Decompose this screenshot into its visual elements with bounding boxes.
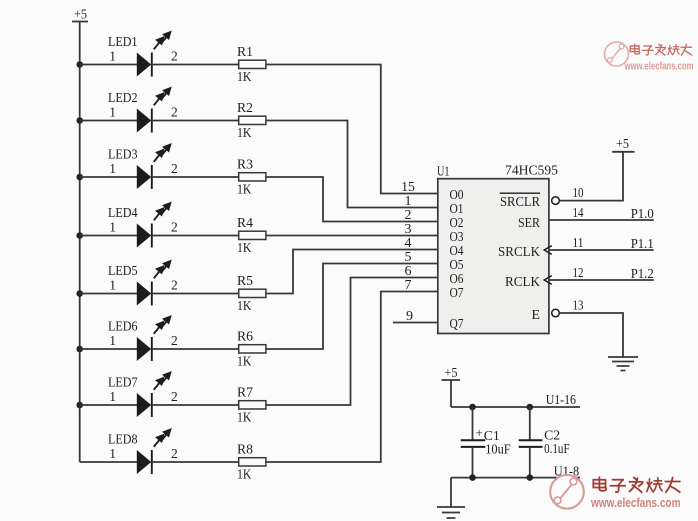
wire LED8 cathode to R8 bbox=[152, 461, 239, 463]
svg-text:R6: R6 bbox=[237, 330, 253, 345]
svg-text:14: 14 bbox=[573, 206, 584, 221]
LED1 bbox=[108, 32, 178, 76]
resistor R6 1K bbox=[237, 330, 266, 370]
wire rail to LED5 anode bbox=[80, 293, 137, 295]
watermark logo top-right bbox=[605, 42, 694, 73]
wire R8 to pin 7 bbox=[266, 292, 438, 463]
svg-text:7: 7 bbox=[405, 278, 412, 293]
wire R1 to pin 15 bbox=[266, 65, 438, 194]
wire LED2 cathode to R2 bbox=[152, 120, 239, 122]
LED5 bbox=[108, 261, 178, 305]
svg-text:R4: R4 bbox=[237, 216, 253, 231]
wire pin13 to ground bbox=[559, 313, 623, 357]
svg-text:RCLK: RCLK bbox=[505, 275, 540, 290]
svg-text:1: 1 bbox=[109, 220, 116, 235]
svg-text:R5: R5 bbox=[237, 274, 253, 289]
svg-text:LED8: LED8 bbox=[108, 431, 138, 446]
svg-text:P1.1: P1.1 bbox=[631, 237, 654, 252]
svg-text:9: 9 bbox=[406, 309, 413, 324]
svg-text:1: 1 bbox=[109, 389, 116, 404]
wire rail to LED6 anode bbox=[80, 348, 137, 350]
IC U1 74HC595 body bbox=[438, 179, 549, 334]
ground right bbox=[608, 357, 638, 371]
LED2 bbox=[108, 88, 178, 132]
svg-text:P1.2: P1.2 bbox=[631, 267, 654, 282]
svg-text:LED3: LED3 bbox=[108, 146, 138, 161]
svg-text:www.elecfans.com: www.elecfans.com bbox=[590, 495, 680, 510]
svg-text:1: 1 bbox=[109, 278, 116, 293]
svg-text:10: 10 bbox=[573, 186, 584, 201]
svg-text:11: 11 bbox=[573, 236, 584, 251]
wire rail to LED8 anode bbox=[80, 461, 137, 463]
svg-text:1K: 1K bbox=[237, 241, 252, 256]
LED8 bbox=[108, 430, 178, 474]
svg-text:LED5: LED5 bbox=[108, 263, 138, 278]
wire rail to bottom ground bbox=[450, 478, 452, 507]
wire pin12 to P1.2 bbox=[549, 279, 654, 281]
svg-text:2: 2 bbox=[171, 278, 178, 293]
svg-text:6: 6 bbox=[405, 264, 412, 279]
svg-text:15: 15 bbox=[401, 180, 415, 195]
power +5 right bbox=[612, 137, 634, 152]
svg-text:1: 1 bbox=[405, 194, 412, 209]
wire rail to LED4 anode bbox=[80, 235, 137, 237]
node junction LED4 anode bbox=[76, 232, 83, 239]
svg-text:SRCLK: SRCLK bbox=[498, 245, 540, 260]
svg-text:2: 2 bbox=[171, 105, 178, 120]
svg-text:2: 2 bbox=[171, 333, 178, 348]
svg-text:2: 2 bbox=[171, 389, 178, 404]
pin 13 inverter bubble bbox=[552, 309, 560, 317]
wire U1-8 rail bbox=[451, 477, 580, 479]
svg-text:R8: R8 bbox=[237, 443, 253, 458]
svg-text:U1: U1 bbox=[437, 165, 450, 180]
svg-text:O4: O4 bbox=[450, 243, 464, 258]
svg-text:1: 1 bbox=[109, 105, 116, 120]
clock input arrow bbox=[544, 276, 552, 285]
wire LED7 cathode to R7 bbox=[152, 404, 239, 406]
LED6 bbox=[108, 317, 178, 361]
svg-text:2: 2 bbox=[405, 208, 412, 223]
svg-text:+5: +5 bbox=[616, 137, 629, 152]
pin 10 inverter bubble bbox=[552, 197, 560, 205]
wire LED3 cathode to R3 bbox=[152, 176, 239, 178]
svg-text:74HC595: 74HC595 bbox=[505, 164, 558, 179]
wire LED1 cathode to R1 bbox=[152, 64, 239, 66]
power +5 top-left bbox=[72, 8, 88, 23]
wire U1-16 rail bbox=[451, 406, 580, 408]
resistor R1 1K bbox=[237, 45, 266, 85]
chip pin label SRCLR with overline bbox=[500, 193, 541, 210]
svg-text:1K: 1K bbox=[237, 126, 252, 141]
svg-text:O5: O5 bbox=[450, 257, 464, 272]
svg-text:O7: O7 bbox=[450, 285, 464, 300]
svg-text:2: 2 bbox=[171, 446, 178, 461]
LED3 bbox=[108, 145, 178, 189]
wire LED5 cathode to R5 bbox=[152, 293, 239, 295]
resistor R3 1K bbox=[237, 158, 266, 198]
wire R6 to pin 5 bbox=[266, 264, 438, 350]
svg-text:2: 2 bbox=[171, 220, 178, 235]
LED7 bbox=[108, 373, 178, 417]
capacitor C2 0.1uF bbox=[519, 407, 570, 478]
svg-text:O1: O1 bbox=[450, 201, 464, 216]
node junction LED5 anode bbox=[76, 290, 83, 297]
svg-text:1K: 1K bbox=[237, 182, 252, 197]
svg-text:O2: O2 bbox=[450, 215, 464, 230]
node junction LED2 anode bbox=[76, 117, 83, 124]
svg-text:+5: +5 bbox=[445, 366, 458, 381]
resistor R2 1K bbox=[237, 101, 266, 141]
svg-text:LED1: LED1 bbox=[108, 34, 138, 49]
wire LED6 cathode to R6 bbox=[152, 348, 239, 350]
svg-text:O3: O3 bbox=[450, 229, 464, 244]
resistor R5 1K bbox=[237, 274, 266, 314]
svg-text:1: 1 bbox=[109, 333, 116, 348]
svg-text:12: 12 bbox=[573, 266, 584, 281]
svg-text:+: + bbox=[476, 425, 483, 440]
svg-text:R2: R2 bbox=[237, 101, 253, 116]
pin 9 stub wire bbox=[393, 322, 438, 324]
svg-text:O0: O0 bbox=[450, 187, 464, 202]
watermark logo bottom-right bbox=[550, 475, 680, 510]
wire rail to LED7 anode bbox=[80, 404, 137, 406]
svg-text:LED6: LED6 bbox=[108, 318, 138, 333]
svg-text:LED4: LED4 bbox=[108, 205, 138, 220]
svg-text:LED7: LED7 bbox=[108, 374, 138, 389]
svg-text:SRCLR: SRCLR bbox=[500, 195, 541, 210]
svg-text:5: 5 bbox=[405, 250, 412, 265]
svg-text:E: E bbox=[531, 308, 540, 323]
svg-text:1K: 1K bbox=[237, 410, 252, 425]
svg-text:U1-16: U1-16 bbox=[546, 393, 576, 408]
wire R3 to pin 2 bbox=[266, 177, 438, 222]
svg-text:1K: 1K bbox=[237, 467, 252, 482]
resistor R4 1K bbox=[237, 216, 266, 256]
svg-text:0.1uF: 0.1uF bbox=[544, 441, 570, 456]
svg-text:1K: 1K bbox=[237, 354, 252, 369]
svg-text:SER: SER bbox=[518, 216, 541, 231]
ground bottom bbox=[437, 507, 465, 521]
wire rail to LED3 anode bbox=[80, 176, 137, 178]
resistor R8 1K bbox=[237, 443, 266, 483]
node junction LED3 anode bbox=[76, 174, 83, 181]
svg-text:LED2: LED2 bbox=[108, 90, 138, 105]
LED4 bbox=[108, 203, 178, 247]
wire rail to LED2 anode bbox=[80, 120, 137, 122]
capacitor C1 10uF polarized bbox=[461, 407, 511, 478]
wire LED4 cathode to R4 bbox=[152, 235, 239, 237]
svg-text:4: 4 bbox=[405, 236, 412, 251]
node junction LED1 anode bbox=[76, 61, 83, 68]
wire +5 vertical rail bbox=[79, 22, 81, 463]
node junction LED6 anode bbox=[76, 346, 83, 353]
wire +5 down to U1-16 rail bbox=[450, 380, 452, 407]
wire R7 to pin 6 bbox=[266, 278, 438, 406]
svg-text:+5: +5 bbox=[74, 8, 87, 23]
svg-text:R1: R1 bbox=[237, 45, 253, 60]
svg-text:O6: O6 bbox=[450, 271, 464, 286]
wire pin11 to P1.1 bbox=[549, 249, 654, 251]
wire R4 to pin 3 bbox=[266, 235, 438, 237]
svg-text:1: 1 bbox=[109, 161, 116, 176]
svg-text:1: 1 bbox=[109, 446, 116, 461]
svg-text:3: 3 bbox=[405, 222, 412, 237]
svg-text:1: 1 bbox=[109, 49, 116, 64]
node junction C2 top bbox=[527, 404, 534, 411]
clock input arrow bbox=[544, 246, 552, 255]
node junction LED7 anode bbox=[76, 402, 83, 409]
node junction C1 top bbox=[469, 404, 476, 411]
wire R2 to pin 1 bbox=[266, 121, 438, 208]
svg-text:1K: 1K bbox=[237, 299, 252, 314]
wire pin14 to P1.0 bbox=[549, 219, 654, 221]
svg-text:R7: R7 bbox=[237, 386, 253, 401]
svg-text:www.elecfans.com: www.elecfans.com bbox=[624, 61, 694, 73]
svg-text:13: 13 bbox=[573, 298, 584, 313]
power +5 bottom bbox=[442, 366, 461, 381]
svg-text:R3: R3 bbox=[237, 158, 253, 173]
svg-text:1K: 1K bbox=[237, 70, 252, 85]
node junction C1 bottom bbox=[469, 474, 476, 481]
svg-text:10uF: 10uF bbox=[485, 442, 511, 457]
svg-text:2: 2 bbox=[171, 49, 178, 64]
svg-text:2: 2 bbox=[171, 161, 178, 176]
svg-text:Q7: Q7 bbox=[450, 316, 464, 331]
wire pin10 to +5 bbox=[559, 152, 623, 201]
wire R5 to pin 4 bbox=[266, 250, 438, 294]
resistor R7 1K bbox=[237, 386, 266, 426]
svg-text:P1.0: P1.0 bbox=[631, 207, 654, 222]
wire rail to LED1 anode bbox=[80, 64, 137, 66]
node junction C2 bottom bbox=[527, 474, 534, 481]
